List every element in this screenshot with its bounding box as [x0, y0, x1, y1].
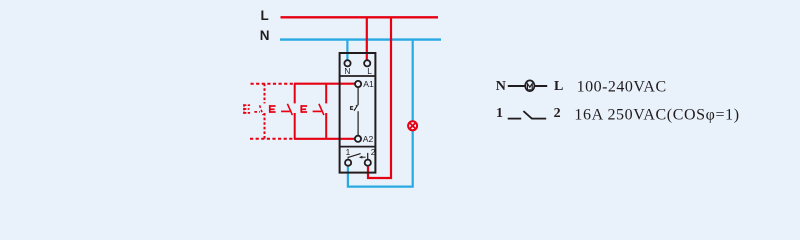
legend row1: coil lead line [508, 85, 547, 87]
legend row2: contact right lead [531, 118, 546, 120]
legend row2: contact blade [523, 111, 531, 119]
svg-text:100-240VAC: 100-240VAC [577, 78, 667, 95]
wire N down through lamp to terminal 1 [348, 40, 413, 187]
relay module divider top [340, 75, 376, 77]
svg-text:16A 250VAC(COSφ=1): 16A 250VAC(COSφ=1) [574, 106, 739, 123]
output contact blade [347, 157, 349, 159]
wire A1 rail solid [294, 83, 355, 85]
relay module divider bottom [340, 146, 376, 148]
lamp [408, 121, 417, 130]
push-button S3 [301, 84, 326, 139]
wire L line (red) [281, 16, 439, 18]
svg-text:L: L [261, 8, 269, 23]
svg-text:N: N [344, 66, 350, 76]
svg-text:A2: A2 [363, 134, 374, 144]
legend row2: contact left lead [508, 118, 522, 120]
wire L down right side to terminal 2 [368, 17, 391, 178]
wire A2 rail dashed (extension) [250, 138, 294, 140]
svg-text:L: L [367, 66, 372, 76]
svg-text:N: N [260, 28, 270, 43]
output contact arrow [361, 156, 366, 158]
relay module U1 outline [340, 53, 376, 173]
terminal L circle [364, 60, 370, 66]
push-button S2 [270, 84, 295, 139]
internal actuator E symbol [350, 106, 353, 110]
internal coil contact wire bottom [357, 111, 359, 135]
wire N line (blue) [280, 38, 441, 40]
svg-text:2: 2 [371, 147, 376, 157]
terminal A1 circle [355, 81, 361, 87]
internal contact blade with arrow [354, 105, 357, 110]
legend row1: coil circle symbol [525, 80, 534, 91]
svg-text:A1: A1 [363, 79, 374, 89]
terminal A2 circle [355, 136, 361, 142]
svg-text:1: 1 [346, 147, 351, 157]
terminal 1 circle [345, 160, 351, 166]
internal coil contact wire top [357, 88, 359, 106]
wire A2 rail solid [294, 138, 354, 140]
svg-text:1: 1 [496, 106, 503, 121]
svg-text:L: L [554, 79, 563, 94]
svg-text:N: N [496, 79, 506, 94]
svg-text:2: 2 [554, 106, 561, 121]
terminal 2 circle [365, 160, 371, 166]
wire N to device terminal N [346, 40, 348, 61]
push-button S1 (dashed, optional) [244, 84, 265, 139]
output contact stub [367, 153, 369, 160]
wire L to device terminal L [366, 17, 368, 60]
wire A1 rail dashed (extension) [251, 83, 295, 85]
terminal N circle [344, 60, 350, 66]
